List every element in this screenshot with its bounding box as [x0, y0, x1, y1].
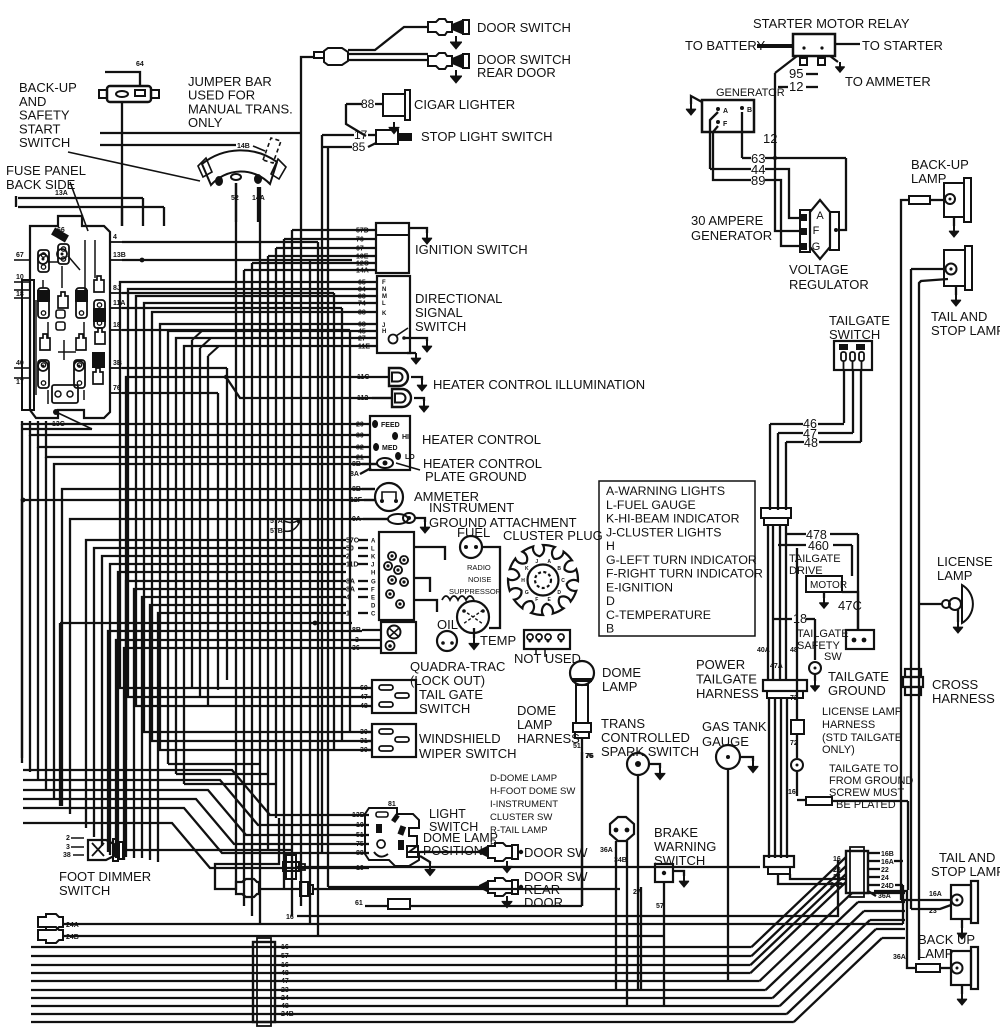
illumination funnel — [126, 377, 372, 760]
svg-text:13A: 13A — [55, 190, 68, 197]
svg-text:WARNING: WARNING — [654, 839, 716, 854]
svg-text:40: 40 — [16, 360, 24, 367]
cluster bulbs — [388, 552, 396, 560]
svg-text:H: H — [371, 571, 375, 577]
wire 12 drop — [774, 73, 776, 160]
svg-text:STOP LIGHT SWITCH: STOP LIGHT SWITCH — [421, 129, 552, 144]
svg-text:18: 18 — [793, 612, 807, 626]
back up bottom ground — [961, 985, 963, 994]
plate ground leader — [396, 463, 420, 470]
door sw bottom 1 — [488, 843, 512, 861]
svg-text:13B: 13B — [113, 252, 126, 259]
svg-text:STOP LAMP: STOP LAMP — [931, 323, 1000, 338]
svg-text:16A: 16A — [881, 859, 894, 866]
tail stop lamp top ground — [955, 286, 957, 295]
license lamp symbol — [962, 585, 973, 623]
svg-text:FROM GROUND: FROM GROUND — [829, 775, 913, 787]
svg-text:30 AMPERE: 30 AMPERE — [691, 213, 764, 228]
svg-text:F: F — [382, 280, 386, 286]
svg-text:LO: LO — [405, 454, 415, 461]
svg-text:FUEL: FUEL — [457, 525, 490, 540]
svg-text:NOT USED: NOT USED — [514, 651, 581, 666]
quadra runs — [108, 631, 362, 852]
wire 44 — [710, 168, 751, 170]
svg-text:66: 66 — [57, 227, 65, 234]
svg-text:SWITCH: SWITCH — [829, 327, 880, 342]
right block right wires — [868, 852, 880, 854]
svg-text:GAS TANK: GAS TANK — [702, 719, 767, 734]
wire x301 to bottom — [300, 426, 302, 906]
svg-text:(STD TAILGATE: (STD TAILGATE — [822, 732, 902, 744]
svg-text:A: A — [547, 559, 551, 565]
svg-text:REAR DOOR: REAR DOOR — [477, 65, 556, 80]
svg-text:(LOCK OUT): (LOCK OUT) — [410, 673, 485, 688]
power lump wires — [778, 874, 846, 884]
svg-text:D: D — [606, 594, 615, 608]
svg-text:OIL: OIL — [437, 617, 458, 632]
svg-text:CIGAR LIGHTER: CIGAR LIGHTER — [414, 97, 515, 112]
svg-text:H: H — [606, 539, 615, 553]
svg-text:H: H — [521, 578, 525, 584]
tailgate switch wires down — [843, 370, 845, 423]
svg-text:LAMP: LAMP — [918, 946, 953, 961]
fuse panel right stubs — [110, 241, 122, 243]
wire horiz 133 — [100, 132, 301, 134]
svg-text:LICENSE LAMP: LICENSE LAMP — [822, 706, 902, 718]
svg-text:TO BATTERY: TO BATTERY — [685, 38, 766, 53]
svg-text:SAFETY: SAFETY — [19, 108, 70, 123]
wire 95 — [775, 56, 797, 73]
power lump — [764, 856, 794, 867]
wire gen A to 44 — [710, 112, 718, 169]
svg-text:LAMP: LAMP — [517, 717, 552, 732]
svg-text:51: 51 — [573, 743, 581, 750]
fuse run 76 — [122, 392, 218, 394]
svg-text:38: 38 — [63, 852, 71, 859]
svg-text:GAUGE: GAUGE — [702, 734, 749, 749]
relay ground — [830, 56, 838, 62]
svg-text:D: D — [371, 604, 376, 610]
svg-text:POWER: POWER — [696, 657, 745, 672]
wires below upper connector — [767, 525, 769, 680]
svg-text:88: 88 — [361, 97, 375, 111]
foot dimmer switch — [88, 840, 114, 860]
light switch shape — [365, 808, 419, 866]
sector switch shape — [202, 150, 277, 185]
svg-text:SUPPRESSOR: SUPPRESSOR — [449, 587, 502, 596]
svg-text:NOISE: NOISE — [468, 575, 491, 584]
svg-text:N: N — [382, 287, 386, 293]
plated wire — [797, 799, 806, 801]
svg-text:A: A — [816, 210, 824, 222]
right connector block — [846, 851, 868, 893]
svg-text:PLATE GROUND: PLATE GROUND — [425, 469, 527, 484]
fuse run 4 — [122, 241, 318, 243]
svg-text:J: J — [371, 563, 374, 569]
svg-text:SW: SW — [824, 651, 842, 663]
svg-text:89: 89 — [751, 173, 765, 188]
wire connector to left drop — [301, 57, 314, 133]
svg-text:R-TAIL LAMP: R-TAIL LAMP — [490, 825, 548, 836]
wire backup lamp left drop — [901, 200, 909, 893]
svg-text:HARNESS: HARNESS — [517, 731, 580, 746]
svg-text:LICENSE: LICENSE — [937, 554, 993, 569]
quadra trac box — [381, 622, 416, 653]
heater illum socket 2 — [392, 389, 411, 407]
back up lamp bottom — [951, 951, 971, 985]
speedo cable — [236, 879, 259, 897]
svg-text:36A: 36A — [893, 954, 906, 961]
svg-text:57A: 57A — [270, 518, 283, 525]
wire gen B to 63 — [741, 112, 743, 158]
svg-text:WIPER SWITCH: WIPER SWITCH — [419, 746, 517, 761]
svg-text:I-INSTRUMENT: I-INSTRUMENT — [490, 799, 558, 810]
svg-text:K: K — [371, 555, 376, 561]
svg-text:2: 2 — [66, 835, 70, 842]
svg-text:FEED: FEED — [381, 422, 400, 429]
to battery wire — [757, 44, 793, 48]
svg-text:36A: 36A — [600, 847, 613, 854]
svg-text:BACK-UP: BACK-UP — [19, 80, 77, 95]
svg-text:F: F — [371, 588, 375, 594]
fuse run 8J — [122, 292, 334, 294]
svg-text:57C: 57C — [346, 538, 359, 545]
svg-text:10: 10 — [16, 274, 24, 281]
fuel gauge circle — [460, 536, 482, 558]
svg-text:HEATER CONTROL: HEATER CONTROL — [422, 432, 541, 447]
svg-text:HEATER CONTROL ILLUMINATION: HEATER CONTROL ILLUMINATION — [433, 377, 645, 392]
svg-text:47A: 47A — [770, 663, 783, 670]
directional right arrow2 — [407, 352, 416, 354]
dome lamp symbol — [570, 661, 594, 685]
svg-text:G-LEFT TURN INDICATOR: G-LEFT TURN INDICATOR — [606, 553, 757, 567]
wire x322 drop — [321, 135, 323, 426]
generator box — [702, 100, 754, 132]
svg-text:FOOT DIMMER: FOOT DIMMER — [59, 869, 151, 884]
distributor circle — [457, 601, 489, 633]
svg-text:CLUSTER PLUG: CLUSTER PLUG — [503, 528, 603, 543]
svg-text:LAMP: LAMP — [602, 679, 637, 694]
voltage regulator U1 — [810, 200, 830, 259]
svg-text:RADIO: RADIO — [467, 563, 491, 572]
svg-text:76: 76 — [113, 385, 121, 392]
svg-text:SWITCH: SWITCH — [19, 135, 70, 150]
wire horiz 145 14B — [100, 144, 236, 146]
wires below power connector — [768, 698, 770, 858]
wire door2 double — [348, 53, 428, 55]
svg-text:DOOR: DOOR — [524, 895, 563, 910]
svg-text:4: 4 — [113, 234, 117, 241]
cigar lighter symbol — [383, 94, 405, 116]
svg-text:TAIL GATE: TAIL GATE — [419, 687, 483, 702]
svg-text:J: J — [535, 559, 538, 565]
ignition switch box — [376, 223, 409, 273]
license wire chain — [796, 548, 798, 720]
svg-text:K: K — [525, 566, 529, 572]
svg-text:16: 16 — [833, 856, 841, 863]
svg-text:64: 64 — [136, 61, 144, 68]
svg-text:TAILGATE: TAILGATE — [797, 628, 849, 640]
wire fuel gauge right — [482, 547, 500, 628]
svg-text:16: 16 — [788, 789, 796, 796]
svg-text:DOME: DOME — [517, 703, 556, 718]
heater control box — [370, 416, 410, 470]
svg-text:BRAKE: BRAKE — [654, 825, 698, 840]
svg-text:3B: 3B — [113, 360, 122, 367]
svg-text:VOLTAGE: VOLTAGE — [789, 262, 849, 277]
junction dot 623 — [313, 621, 318, 626]
svg-text:L: L — [371, 547, 375, 553]
svg-text:FUSE PANEL: FUSE PANEL — [6, 163, 86, 178]
svg-text:GROUND: GROUND — [828, 683, 886, 698]
svg-text:D-DOME LAMP: D-DOME LAMP — [490, 773, 557, 784]
svg-text:LAMP: LAMP — [937, 568, 972, 583]
fuse panel leader — [70, 182, 88, 231]
svg-text:D: D — [557, 590, 561, 596]
wire 47 — [778, 432, 803, 434]
brake warning switch — [655, 864, 673, 882]
tail stop bottom ground — [961, 919, 963, 928]
svg-text:E-IGNITION: E-IGNITION — [606, 580, 673, 594]
bottom harness bundle — [31, 946, 752, 948]
svg-text:ONLY): ONLY) — [822, 744, 855, 756]
svg-text:14B: 14B — [237, 143, 250, 150]
svg-text:REGULATOR: REGULATOR — [789, 277, 869, 292]
wire 17 — [322, 134, 354, 136]
svg-text:DOOR SW: DOOR SW — [524, 845, 588, 860]
cluster legend box — [599, 481, 755, 636]
power tailgate connector upper — [761, 508, 791, 518]
svg-text:F: F — [813, 225, 820, 237]
svg-text:TAIL AND: TAIL AND — [939, 850, 995, 865]
svg-text:INSTRUMENT: INSTRUMENT — [429, 500, 514, 515]
connector 24A 24B — [38, 914, 63, 930]
svg-text:17: 17 — [16, 379, 24, 386]
wire cluster right loop — [414, 547, 445, 560]
directional runs and rails — [120, 282, 369, 688]
svg-text:8A: 8A — [350, 471, 359, 478]
svg-text:DOME LAMP: DOME LAMP — [423, 831, 498, 845]
wire 46 — [770, 423, 803, 425]
svg-text:B: B — [747, 107, 752, 114]
svg-text:3: 3 — [66, 844, 70, 851]
svg-text:24: 24 — [881, 875, 889, 882]
svg-text:AND: AND — [19, 94, 46, 109]
svg-text:A: A — [723, 108, 728, 115]
wire door1 left — [348, 27, 428, 50]
svg-text:DOOR SWITCH: DOOR SWITCH — [477, 20, 571, 35]
svg-text:QUADRA-TRAC: QUADRA-TRAC — [410, 659, 505, 674]
cable connector top — [324, 48, 348, 65]
suppressor coil — [442, 596, 474, 600]
svg-text:J-CLUSTER LIGHTS: J-CLUSTER LIGHTS — [606, 525, 721, 539]
svg-text:GENERATOR: GENERATOR — [716, 87, 785, 99]
oil gauge circle — [437, 631, 457, 651]
svg-text:24B: 24B — [281, 1011, 294, 1018]
svg-text:24B: 24B — [830, 882, 843, 889]
tail stop lamp bottom — [951, 885, 971, 919]
svg-text:8J: 8J — [113, 285, 121, 292]
wire x328 down — [327, 426, 329, 887]
starter motor relay box — [793, 34, 835, 56]
svg-text:K: K — [382, 311, 387, 317]
wire 12a — [778, 86, 788, 88]
svg-text:36A: 36A — [878, 893, 891, 900]
fuse panel bottom line — [22, 428, 92, 430]
wire 12 to F — [775, 160, 800, 231]
heater illum socket 1 — [389, 368, 408, 386]
svg-text:MOTOR: MOTOR — [810, 580, 847, 591]
door switch 2 rear — [428, 53, 452, 69]
svg-text:TEMP: TEMP — [480, 633, 516, 648]
svg-text:GENERATOR: GENERATOR — [691, 228, 772, 243]
speedo T connector — [286, 855, 296, 879]
door sw wire 1 — [417, 851, 479, 853]
wire 89 — [713, 126, 751, 180]
fuse run 18 — [122, 329, 350, 331]
svg-text:81: 81 — [388, 801, 396, 808]
fuse panel assembly — [30, 216, 110, 418]
svg-text:16A: 16A — [929, 891, 942, 898]
wire 18 — [772, 618, 792, 620]
svg-text:H: H — [382, 329, 386, 335]
fuse top wires — [121, 207, 123, 226]
svg-text:START: START — [19, 121, 60, 136]
svg-text:TAILGATE: TAILGATE — [696, 672, 757, 687]
svg-text:SPARK SWITCH: SPARK SWITCH — [601, 744, 699, 759]
svg-text:27: 27 — [633, 889, 641, 896]
svg-text:LAMP: LAMP — [911, 171, 946, 186]
svg-text:C: C — [371, 612, 376, 618]
tailgate ground pulley — [809, 662, 821, 674]
bottom bundle connector — [253, 942, 275, 1022]
svg-text:24D: 24D — [881, 883, 894, 890]
power tailgate connector — [763, 680, 807, 691]
svg-text:22: 22 — [881, 867, 889, 874]
trans spark switch — [627, 753, 649, 775]
svg-text:C: C — [561, 578, 565, 584]
svg-text:B: B — [557, 566, 561, 572]
tail gate switch left box — [372, 680, 416, 713]
ammeter circle — [375, 483, 403, 511]
svg-text:85: 85 — [352, 140, 366, 154]
hex connector — [610, 817, 634, 841]
svg-text:TRANS: TRANS — [601, 716, 645, 731]
ground attachment symbol — [388, 514, 408, 524]
wire 88 — [346, 103, 362, 105]
svg-text:SCREW MUST: SCREW MUST — [829, 787, 904, 799]
wire x322 down — [321, 426, 323, 852]
ammeter runs — [62, 489, 375, 806]
directional switch box — [377, 276, 410, 353]
svg-text:57: 57 — [281, 953, 289, 960]
svg-text:P: P — [490, 838, 496, 849]
svg-text:CROSS: CROSS — [932, 677, 979, 692]
svg-text:STOP LAMP: STOP LAMP — [931, 864, 1000, 879]
generator ground — [691, 96, 702, 104]
door sw wire 2 — [328, 886, 479, 888]
svg-text:16: 16 — [281, 962, 289, 969]
svg-text:H-FOOT DOME SW: H-FOOT DOME SW — [490, 786, 575, 797]
wire 48 — [786, 441, 804, 443]
svg-text:BACK UP: BACK UP — [918, 932, 975, 947]
tailgate switch box — [834, 341, 872, 370]
speedo loop — [215, 818, 279, 889]
svg-text:TAILGATE: TAILGATE — [829, 313, 890, 328]
stop light switch symbol — [376, 130, 398, 144]
svg-text:G: G — [812, 241, 821, 253]
svg-text:460: 460 — [808, 539, 829, 553]
svg-text:HARNESS: HARNESS — [822, 719, 875, 731]
ignition arrow — [409, 228, 427, 233]
wire back-up switch drop — [121, 102, 123, 226]
wire x301 long drop — [300, 133, 302, 426]
svg-text:L-FUEL GAUGE: L-FUEL GAUGE — [606, 498, 696, 512]
fuse panel top lines — [18, 197, 143, 199]
svg-text:76: 76 — [585, 753, 593, 760]
mid vertical bundle — [235, 183, 237, 890]
svg-text:48: 48 — [804, 436, 818, 450]
heater stub runs — [22, 421, 367, 424]
svg-text:48: 48 — [281, 970, 289, 977]
svg-text:23: 23 — [833, 867, 841, 874]
foot dimmer wire — [123, 849, 292, 851]
svg-text:B: B — [606, 622, 614, 636]
wire to back-up switch top — [105, 72, 140, 86]
svg-text:LIGHT: LIGHT — [429, 807, 466, 821]
fuse run 11A — [122, 307, 342, 309]
svg-text:E: E — [371, 596, 375, 602]
temp arrow — [473, 628, 475, 638]
svg-text:SWITCH: SWITCH — [59, 883, 110, 898]
svg-text:F-RIGHT TURN INDICATOR: F-RIGHT TURN INDICATOR — [606, 567, 763, 581]
svg-text:TO STARTER: TO STARTER — [862, 38, 943, 53]
svg-text:A-WARNING LIGHTS: A-WARNING LIGHTS — [606, 484, 725, 498]
wire x328 drop — [327, 147, 329, 426]
wire 478 — [786, 533, 806, 535]
door switch 1 — [428, 19, 452, 35]
bundle fan — [752, 857, 847, 947]
svg-text:TAIL AND: TAIL AND — [931, 309, 987, 324]
fuse run 13B — [122, 259, 352, 261]
switch leader line — [68, 152, 200, 181]
svg-text:WINDSHIELD: WINDSHIELD — [419, 731, 501, 746]
wire 85 — [322, 146, 352, 148]
svg-text:16B: 16B — [881, 851, 894, 858]
svg-text:14A: 14A — [252, 195, 265, 202]
svg-text:IGNITION SWITCH: IGNITION SWITCH — [415, 242, 528, 257]
light switch ground — [420, 856, 430, 864]
motor ground — [823, 592, 825, 598]
svg-text:HARNESS: HARNESS — [932, 691, 995, 706]
svg-text:13C: 13C — [52, 421, 65, 428]
sector stub 52 — [235, 183, 237, 222]
back-up and safety start switch S1 — [107, 86, 151, 102]
svg-text:SWITCH: SWITCH — [654, 853, 705, 868]
wiper switch box — [372, 724, 416, 757]
sector stub 14A — [257, 187, 259, 222]
svg-text:DIRECTIONAL: DIRECTIONAL — [415, 291, 502, 306]
not used box — [524, 630, 570, 649]
svg-text:16: 16 — [281, 944, 289, 951]
tail stop lamp top symbol — [944, 250, 965, 286]
svg-text:61: 61 — [355, 900, 363, 907]
motor box — [806, 576, 842, 592]
svg-text:TAILGATE TO: TAILGATE TO — [829, 763, 899, 775]
wire 460 — [778, 544, 806, 546]
svg-text:18: 18 — [16, 291, 24, 298]
jumper bar dashed — [263, 138, 281, 163]
